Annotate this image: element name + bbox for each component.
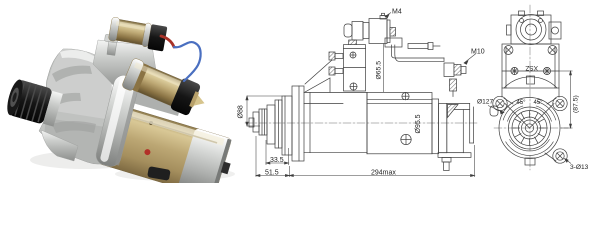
shaft tip stub	[249, 118, 254, 127]
photo: bracket above housing	[93, 40, 158, 90]
photo: pinion gear	[4, 78, 63, 128]
photo: grey linkage between solenoid and body	[122, 84, 182, 116]
M4 bolt	[380, 16, 386, 20]
connector block under solenoid right	[385, 38, 402, 47]
side view dimensions	[246, 13, 476, 178]
leader M10	[464, 54, 476, 64]
svg-text:Ø95.5: Ø95.5	[415, 114, 422, 133]
left small lug	[490, 106, 498, 116]
side through-bolts	[504, 46, 513, 55]
bell housing top/bottom	[304, 92, 367, 94]
mounting flange	[292, 86, 304, 161]
shaft collars	[259, 109, 267, 135]
solenoid terminal stud	[390, 28, 396, 37]
conduit from solenoid to rear terminal	[392, 45, 445, 58]
solenoid housing rect	[511, 15, 551, 44]
rear bracket foot	[438, 153, 471, 158]
photo: blue wire	[174, 42, 201, 81]
rear edge verticals	[469, 104, 471, 144]
leader 3-Ø13	[565, 159, 572, 164]
centerlines	[529, 5, 531, 170]
dim Ø65.5 vertical (solenoid)	[383, 44, 385, 93]
photo: red wire	[161, 36, 174, 47]
yoke main body	[367, 93, 432, 154]
bell housing front ring	[309, 93, 311, 153]
solenoid front circle	[516, 15, 546, 45]
through bolt head	[402, 93, 409, 100]
tie rod	[408, 44, 428, 49]
dim 51.5 / 294max common line	[255, 136, 257, 177]
ear connect lines	[504, 98, 513, 104]
left tab	[507, 25, 512, 35]
gear ring outer	[512, 111, 547, 146]
svg-text:Ø65.5: Ø65.5	[376, 61, 383, 80]
diagonal strut to lever housing	[305, 60, 332, 84]
body front rect	[502, 44, 559, 88]
hub circles	[522, 120, 538, 136]
svg-text:XSZ: XSZ	[525, 64, 538, 71]
svg-text:M4: M4	[392, 9, 402, 16]
rear bracket	[432, 99, 439, 154]
svg-text:Ø127: Ø127	[477, 99, 493, 106]
top bolts	[519, 11, 525, 16]
solenoid ring	[352, 22, 363, 41]
solenoid step ring	[363, 23, 369, 39]
photo soft shadow under motor body	[115, 167, 235, 181]
pinion tip	[253, 112, 259, 132]
dim (87.5) vertical	[559, 70, 573, 72]
lever housing	[344, 45, 366, 91]
photo: black rubber foot	[147, 166, 171, 181]
kidney slots	[508, 141, 552, 154]
photo soft shadow under housing	[30, 151, 140, 169]
solenoid main body	[369, 19, 387, 44]
flange outer circle	[499, 98, 560, 159]
photo: flange disc (bright edge-on ring)	[94, 73, 141, 168]
leader Ø127	[488, 106, 504, 113]
inspection screw	[401, 134, 411, 144]
bottom tab	[525, 158, 535, 165]
photo: drive end housing casting	[39, 49, 113, 164]
stud lower conduit	[450, 79, 457, 91]
nose step 1	[267, 105, 275, 144]
nose step 2	[275, 100, 282, 148]
parting line	[502, 70, 559, 72]
gusset triangle	[305, 78, 330, 92]
solenoid: left cap	[344, 24, 352, 37]
svg-text:(87.5): (87.5)	[573, 95, 580, 113]
solenoid flange	[387, 20, 390, 43]
svg-text:45°: 45°	[517, 100, 527, 106]
shaft collar	[43, 91, 63, 127]
photo: hex bolt on bracket	[107, 40, 117, 56]
centerline	[245, 122, 478, 124]
nose cone	[282, 96, 292, 155]
gear teeth	[513, 111, 546, 145]
svg-text:Ø88: Ø88	[238, 105, 245, 118]
dim 33.5	[265, 140, 267, 165]
black cap	[170, 77, 202, 116]
knurled nuts	[511, 67, 518, 74]
terminal tip	[191, 93, 207, 110]
left studs of lever housing	[329, 52, 335, 60]
svg-text:294max: 294max	[371, 169, 396, 176]
svg-text:3-Ø13: 3-Ø13	[570, 164, 589, 171]
svg-text:51.5: 51.5	[265, 169, 279, 176]
svg-text:33.5: 33.5	[270, 157, 284, 164]
photo: housing rib shading	[52, 66, 92, 82]
photo: main brass motor body	[98, 104, 237, 200]
yoke top arc	[504, 77, 557, 88]
front view dimensions	[488, 71, 573, 164]
leader M4	[385, 13, 391, 17]
ear top-left	[493, 96, 507, 110]
gear ring inner	[519, 117, 541, 139]
photo: solenoid	[121, 57, 211, 121]
photo: housing bottom fin	[41, 130, 78, 161]
flange inner ring	[509, 107, 551, 149]
svg-text:45°: 45°	[534, 100, 544, 106]
chamfer hatch	[448, 105, 459, 118]
right terminal block	[549, 22, 561, 39]
front view texts	[477, 64, 589, 171]
M10 terminal stud	[444, 63, 454, 77]
45 deg radial lines	[505, 104, 530, 129]
photo: top relay	[108, 17, 168, 52]
relay black box	[147, 24, 167, 51]
svg-text:M10: M10	[471, 49, 485, 56]
ear top-right	[553, 96, 567, 110]
small rect below center	[527, 76, 535, 84]
dim Ø88 vertical line	[246, 96, 248, 126]
rear hanging stud	[442, 157, 451, 162]
ear bottom	[553, 149, 567, 163]
lever housing screws	[350, 52, 356, 58]
side view texts	[238, 9, 485, 177]
